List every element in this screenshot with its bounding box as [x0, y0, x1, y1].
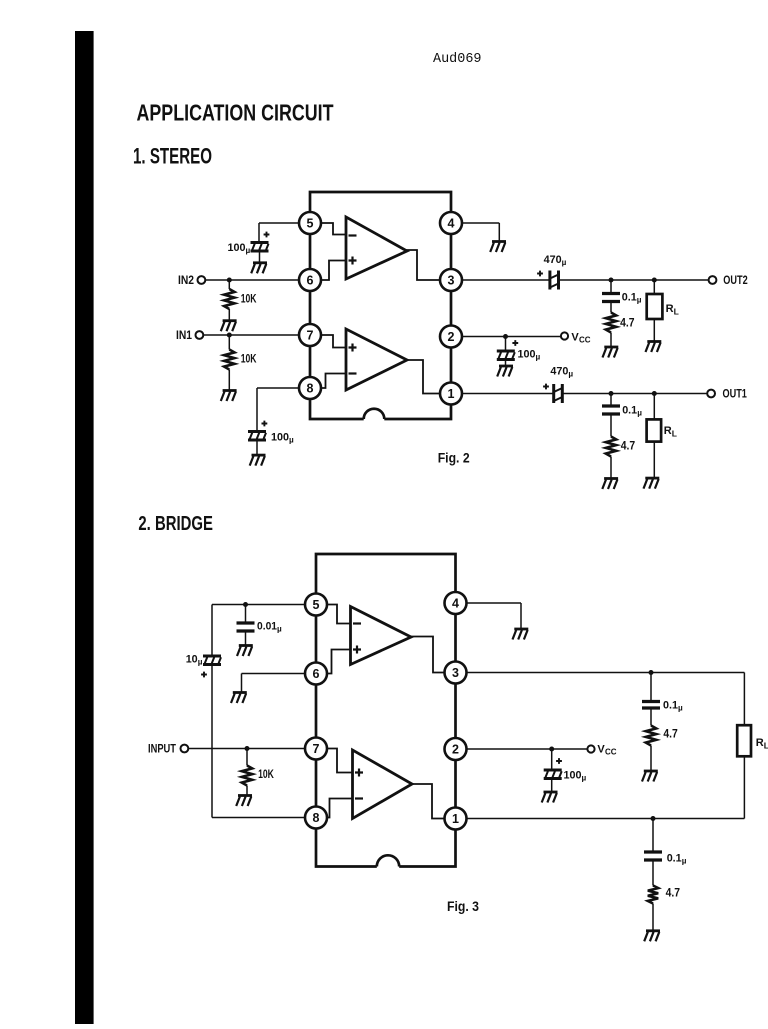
ground pin4	[490, 242, 506, 253]
svg-text:2. BRIDGE: 2. BRIDGE	[138, 513, 213, 535]
pin 2 fig3	[445, 738, 467, 760]
svg-text:10K: 10K	[258, 769, 274, 781]
pin 6 fig3	[305, 663, 327, 685]
svg-text:µ: µ	[277, 625, 282, 634]
node junction pin1 fig3	[651, 816, 656, 821]
capacitor C8 0.1u	[642, 702, 660, 709]
node junction Vcc fig2	[503, 334, 508, 339]
pin 2	[440, 326, 462, 348]
label RL2	[664, 425, 677, 439]
svg-text:470: 470	[544, 254, 562, 266]
label R6 4.7	[663, 729, 677, 741]
op-amp U2A	[351, 607, 412, 665]
label R7 4.7	[666, 887, 680, 899]
node junction pin5 fig3	[243, 602, 248, 607]
ground below R6	[642, 771, 658, 782]
resistor R4 4.7	[606, 437, 616, 457]
pin 8	[299, 377, 321, 399]
wire U2A output to pin3	[410, 637, 445, 673]
label OUT2	[723, 275, 747, 287]
svg-text:4.7: 4.7	[620, 317, 634, 329]
label C5 100u	[518, 349, 541, 362]
node junction pin3 fig3	[649, 670, 654, 675]
wire U2B output to pin1	[412, 784, 445, 819]
svg-text:4: 4	[448, 216, 455, 230]
wire pin5 left	[212, 604, 305, 606]
svg-text:10K: 10K	[241, 293, 257, 305]
node junction OUT2 RL	[652, 278, 657, 283]
svg-text:8: 8	[313, 811, 320, 825]
svg-text:OUT2: OUT2	[723, 275, 747, 287]
pin 8 fig3	[305, 807, 327, 829]
svg-text:2: 2	[448, 330, 455, 344]
svg-text:R: R	[666, 303, 674, 315]
ground below R3	[603, 347, 619, 358]
label R4 4.7	[621, 441, 635, 453]
label C11 10u	[186, 654, 203, 667]
pin 7	[299, 324, 321, 346]
node junction OUT2 zobel	[609, 278, 614, 283]
wire bootstrap vertical via C11	[211, 605, 213, 818]
wire pin6 to ground	[242, 674, 306, 693]
wire junction to R2	[228, 335, 230, 350]
capacitor C3 470u	[550, 271, 559, 290]
wire R7 to ground	[652, 904, 654, 931]
resistor RL1 load	[647, 294, 663, 319]
svg-text:1. STEREO: 1. STEREO	[133, 144, 212, 169]
resistor R6 4.7	[646, 726, 656, 746]
svg-text:µ: µ	[682, 857, 687, 866]
op-amp U1A	[346, 217, 407, 279]
terminal Vcc fig2	[561, 332, 568, 339]
label R1 10K	[241, 293, 257, 305]
capacitor C5 100u	[497, 351, 515, 360]
capacitor C9 100u	[544, 770, 562, 779]
svg-text:0.01: 0.01	[257, 621, 277, 633]
wire R5 to ground	[246, 786, 248, 796]
ground below RL1	[646, 342, 662, 353]
wire C9 to ground	[551, 779, 553, 793]
op-amp U1B	[346, 329, 407, 390]
svg-text:µ: µ	[637, 296, 642, 305]
wire RL2 to ground	[653, 442, 655, 478]
wire C4 to R3	[610, 302, 612, 313]
pin 6	[299, 269, 321, 291]
wire C2 to ground	[256, 440, 258, 455]
wire U1B output to pin1	[405, 360, 440, 394]
svg-text:4.7: 4.7	[663, 729, 677, 741]
label IN1	[176, 330, 193, 342]
svg-text:3: 3	[452, 666, 459, 680]
label C7 0.1u	[622, 405, 642, 418]
wire pin8 to C2	[257, 388, 299, 432]
svg-text:µ: µ	[536, 353, 541, 362]
node junction IN2	[227, 278, 232, 283]
plus polarity C5	[512, 340, 518, 346]
label R5 10K	[258, 769, 274, 781]
label C3 470u	[544, 254, 567, 267]
wire pin2 to Vcc	[463, 336, 561, 338]
label C12 0.1u	[667, 853, 687, 866]
svg-text:CC: CC	[605, 748, 617, 757]
op-amp IC U1 outline	[310, 192, 451, 419]
label C8 0.1u	[663, 700, 683, 713]
wire pin3 via C3 to OUT2	[463, 279, 709, 281]
label RL1	[666, 303, 679, 317]
svg-text:Aud069: Aud069	[433, 52, 482, 67]
svg-text:0.1: 0.1	[663, 700, 678, 712]
capacitor C10 0.01u	[237, 623, 255, 631]
label C10 0.01u	[257, 621, 282, 634]
svg-text:µ: µ	[562, 258, 567, 267]
svg-text:Fig. 2: Fig. 2	[438, 451, 470, 466]
label C6 470u	[550, 366, 573, 379]
svg-text:R: R	[756, 737, 764, 749]
resistor R2 10K	[224, 350, 234, 370]
label Vcc fig3	[597, 744, 616, 757]
wire junction to C9	[551, 749, 553, 770]
wire junction to RL2	[653, 394, 655, 420]
wire C5 to ground	[505, 360, 507, 367]
output terminal OUT1	[707, 390, 715, 398]
ground below R2	[221, 391, 237, 402]
svg-text:µ: µ	[289, 436, 294, 445]
capacitor C11 10u	[203, 656, 221, 665]
ground below C1	[251, 263, 267, 274]
wire pin6 to U2A non-inverting input	[327, 650, 351, 674]
resistor RL3 load	[737, 725, 751, 756]
wire junction to C10	[245, 605, 247, 624]
ground below C2	[250, 455, 266, 466]
left black sidebar	[75, 31, 94, 1024]
ground below C9	[542, 792, 558, 803]
node junction Vcc fig3	[549, 747, 554, 752]
svg-text:µ: µ	[568, 370, 573, 379]
terminal Vcc fig3	[587, 745, 594, 752]
svg-text:4.7: 4.7	[666, 887, 680, 899]
wire IN2 to pin6	[205, 279, 299, 281]
resistor R7 4.7	[648, 886, 658, 904]
wire R1 to ground	[228, 309, 230, 320]
wire junction to R5	[246, 749, 248, 766]
ground below C5	[497, 366, 513, 377]
plus polarity C9	[556, 758, 562, 764]
svg-text:470: 470	[550, 366, 568, 378]
svg-text:3: 3	[448, 273, 455, 287]
svg-text:µ: µ	[637, 409, 642, 418]
input terminal IN1	[196, 331, 204, 339]
svg-text:APPLICATION CIRCUIT: APPLICATION CIRCUIT	[137, 100, 334, 126]
svg-text:10K: 10K	[241, 354, 257, 366]
node junction IN1	[227, 333, 232, 338]
wire pin8 left	[212, 817, 305, 819]
wire pin8 to U2B inverting input	[327, 799, 353, 818]
capacitor C4 0.1u	[602, 294, 620, 302]
plus polarity C6	[543, 384, 549, 390]
wire pin1 to RL3	[467, 756, 745, 818]
wire C7 to R4	[610, 414, 612, 437]
wire IN1 to pin7	[203, 334, 299, 336]
subtitle 2. BRIDGE	[138, 513, 213, 535]
node junction OUT1 zobel	[609, 391, 614, 396]
wire C12 to R7	[652, 860, 654, 886]
ground pin6 fig3	[231, 693, 247, 704]
wire pin7 to U2B non-inverting input	[327, 749, 353, 773]
svg-text:6: 6	[307, 273, 314, 287]
op-amp U2B	[353, 750, 413, 819]
title APPLICATION CIRCUIT	[137, 100, 334, 126]
wire pin2 to Vcc	[467, 748, 588, 750]
pin 4	[440, 212, 462, 234]
wire INPUT to pin7	[188, 748, 305, 750]
pin 3	[440, 269, 462, 291]
svg-text:0.1: 0.1	[622, 292, 637, 304]
svg-text:7: 7	[313, 742, 320, 756]
wire C10 to ground	[245, 631, 247, 646]
wire pin1 via C6 to OUT1	[463, 393, 708, 395]
ground below C10	[237, 646, 253, 657]
label C9 100u	[564, 769, 587, 782]
svg-text:0.1: 0.1	[622, 405, 637, 417]
svg-text:100: 100	[564, 769, 582, 781]
label C1 100u	[228, 242, 251, 255]
plus polarity C1	[264, 232, 270, 238]
ground below R4	[602, 479, 618, 490]
resistor R1 10K	[224, 289, 234, 309]
wire junction to C5	[505, 337, 507, 352]
svg-text:5: 5	[307, 216, 314, 230]
pin 7 fig3	[305, 738, 327, 760]
plus polarity C3	[537, 271, 543, 277]
wire R4 to ground	[610, 457, 612, 479]
capacitor C1 100u	[251, 243, 269, 252]
wire R6 to ground	[650, 746, 652, 772]
wire pin5 to U1A inverting input	[322, 223, 347, 235]
svg-text:0.1: 0.1	[667, 853, 682, 865]
wire U1A output to pin3	[405, 250, 440, 280]
resistor R5 10K	[242, 766, 252, 786]
svg-text:CC: CC	[579, 336, 591, 345]
wire junction to R1	[228, 280, 230, 289]
output terminal OUT2	[709, 276, 717, 284]
svg-text:µ: µ	[198, 658, 203, 667]
capacitor C6 470u	[554, 384, 563, 403]
wire junction to C12	[652, 819, 654, 853]
svg-text:µ: µ	[678, 704, 683, 713]
svg-text:INPUT: INPUT	[148, 744, 176, 756]
svg-text:µ: µ	[246, 246, 251, 255]
svg-text:100: 100	[518, 349, 536, 361]
svg-text:IN1: IN1	[176, 330, 193, 342]
wire pin5 to C1	[259, 223, 299, 243]
svg-text:L: L	[674, 307, 679, 317]
wire pin6 to U1A non-inverting input	[322, 261, 347, 281]
label IN2	[178, 275, 194, 287]
wire RL1 to ground	[653, 319, 655, 342]
ground below RL2	[644, 478, 660, 489]
wire R2 to ground	[228, 370, 230, 391]
svg-text:1: 1	[448, 387, 455, 401]
ground below R1	[221, 321, 237, 332]
label INPUT	[148, 744, 176, 756]
node junction INPUT	[245, 746, 250, 751]
pin 5 fig3	[305, 594, 327, 616]
input terminal IN2	[198, 276, 206, 284]
svg-text:5: 5	[313, 598, 320, 612]
pin 1 fig3	[445, 808, 467, 830]
resistor RL2 load	[647, 419, 662, 441]
label Vcc fig2	[571, 332, 590, 345]
capacitor C7 0.1u	[602, 406, 620, 414]
label C4 0.1u	[622, 292, 642, 305]
label R3 4.7	[620, 317, 634, 329]
wire R3 to ground	[610, 333, 612, 348]
plus polarity C11	[201, 672, 207, 678]
caption Fig. 2	[438, 451, 470, 466]
capacitor C2 100u	[248, 432, 266, 441]
pin 4 fig3	[445, 592, 467, 614]
wire junction to C8	[650, 673, 652, 702]
wire junction to C4	[610, 280, 612, 294]
wire C8 to R6	[650, 708, 652, 726]
plus polarity C2	[262, 421, 268, 427]
svg-text:4.7: 4.7	[621, 441, 635, 453]
label C2 100u	[271, 432, 294, 445]
pin 1	[440, 383, 462, 405]
resistor R3 4.7	[606, 313, 616, 333]
caption Fig. 3	[447, 899, 479, 914]
ground pin4 fig3	[513, 629, 529, 640]
svg-text:1: 1	[452, 812, 459, 826]
svg-text:L: L	[672, 429, 677, 439]
svg-text:OUT1: OUT1	[723, 389, 748, 401]
ground below R7	[644, 931, 660, 942]
svg-text:L: L	[764, 741, 768, 751]
svg-text:R: R	[664, 425, 672, 437]
label OUT1	[723, 389, 748, 401]
svg-text:100: 100	[271, 432, 289, 444]
label RL3	[756, 737, 768, 751]
wire pin3 to RL3	[467, 673, 745, 726]
pin 5	[299, 212, 321, 234]
svg-text:4: 4	[452, 596, 459, 610]
capacitor C12 0.1u	[644, 852, 662, 860]
svg-text:2: 2	[452, 742, 459, 756]
wire junction to C7	[610, 394, 612, 407]
svg-text:IN2: IN2	[178, 275, 194, 287]
svg-text:µ: µ	[582, 773, 587, 782]
wire pin7 to U1B non-inverting input	[322, 335, 347, 348]
wire pin4 to ground	[463, 223, 500, 242]
pin 3 fig3	[445, 662, 467, 684]
svg-text:10: 10	[186, 654, 198, 666]
ground below R5	[236, 796, 252, 807]
wire C1 to ground	[259, 251, 261, 263]
wire pin8 to U1B inverting input	[322, 374, 347, 389]
wire pin5 to U2A inverting input	[327, 605, 351, 624]
svg-text:7: 7	[307, 328, 314, 342]
wire pin4 to ground	[467, 603, 522, 629]
svg-text:6: 6	[313, 667, 320, 681]
node junction OUT1 RL	[652, 391, 657, 396]
subtitle 1. STEREO	[133, 144, 212, 169]
op-amp IC U2 outline	[316, 554, 456, 867]
svg-text:100: 100	[228, 242, 246, 254]
header Aud069	[433, 52, 482, 67]
svg-text:8: 8	[307, 381, 314, 395]
input terminal INPUT	[181, 745, 189, 753]
svg-text:Fig. 3: Fig. 3	[447, 899, 479, 914]
wire junction to RL1	[653, 280, 655, 294]
label R2 10K	[241, 354, 257, 366]
